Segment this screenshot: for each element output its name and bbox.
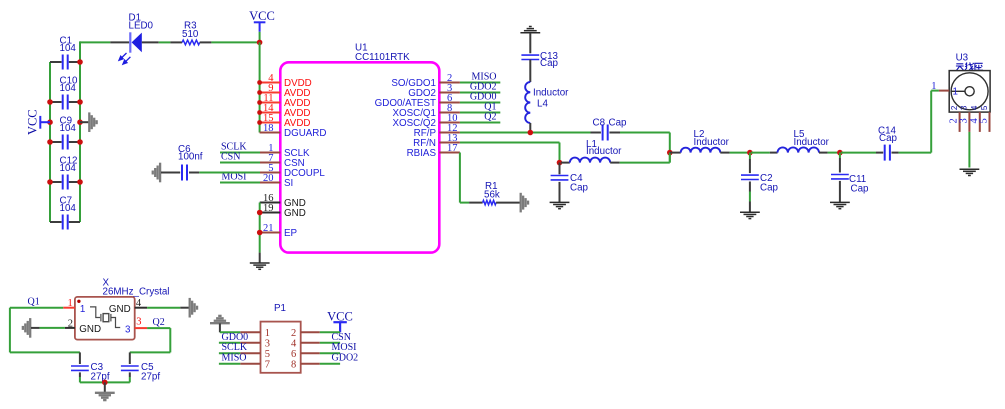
wire - C8 to junction A: [620, 132, 670, 134]
ground - earth below C11: [830, 201, 850, 203]
ground - arrow ground at crystal pin 4: [147, 307, 180, 309]
node - L4 / RF/P junction: [528, 130, 534, 136]
pin 3 of U3: [968, 112, 970, 132]
capacitor C1 value 104: [50, 61, 62, 63]
capacitor C6 100nf on DCOUPL: [159, 163, 161, 183]
svg-text:17: 17: [447, 143, 458, 154]
capacitor C2 Cap: [749, 153, 751, 159]
wire - right vertical bus of cap bank: [79, 41, 81, 222]
pin 16 GND of U1: [260, 202, 281, 204]
pin 17 RBIAS of U1: [439, 152, 460, 154]
pin 1 of P1: [240, 331, 260, 333]
wire - C14 to antenna U3: [899, 152, 932, 154]
svg-text:2: 2: [291, 328, 296, 339]
LED D1 (LED0): [110, 41, 129, 43]
pin 21 EP of U1: [260, 232, 281, 234]
svg-text:510: 510: [182, 29, 199, 40]
svg-text:104: 104: [60, 123, 77, 134]
svg-text:GDO0: GDO0: [222, 332, 249, 343]
ground - sideways arrow ground right of R1: [520, 193, 522, 213]
pin 5 DCOUPL of U1: [260, 172, 280, 174]
pin 20 SI of U1: [260, 182, 280, 184]
ground - earth below U1: [259, 253, 261, 263]
resistor R1 56k: [469, 202, 483, 204]
svg-text:GDO2: GDO2: [332, 353, 359, 364]
pin 18 DGUARD of U1: [260, 132, 281, 134]
svg-text:1: 1: [80, 304, 85, 315]
svg-text:MOSI: MOSI: [332, 342, 357, 353]
svg-text:1: 1: [931, 81, 936, 92]
ground - earth above C13: [520, 32, 540, 34]
svg-text:2: 2: [68, 318, 73, 329]
capacitor C11 Cap: [839, 153, 841, 158]
ground - thick ground below crystal caps: [104, 382, 106, 392]
svg-text:SI: SI: [284, 178, 293, 189]
U3 connector body: [949, 71, 990, 113]
svg-text:27pf: 27pf: [141, 372, 160, 383]
wire - VCC bus down the left side of U1: [259, 42, 261, 132]
node - crystal ground junction: [102, 380, 108, 386]
pin 8 XOSC/Q1 of U1: [439, 112, 460, 114]
svg-text:CC1101RTK: CC1101RTK: [355, 52, 410, 63]
svg-text:C8: C8: [593, 118, 606, 129]
capacitor C12 value 104: [50, 181, 62, 183]
svg-text:4: 4: [136, 298, 142, 309]
pin 3 GDO2 of U1: [439, 92, 460, 94]
pin 9 AVDD of U1: [260, 92, 281, 94]
svg-text:7: 7: [265, 360, 270, 371]
svg-text:Cap: Cap: [609, 118, 628, 129]
pin 5 of U3: [989, 112, 991, 132]
pin 1 of X: [63, 307, 75, 309]
net label MISO / wire to P1 pin 7: [219, 363, 240, 365]
svg-text:SCLK: SCLK: [222, 342, 248, 353]
svg-text:Q2: Q2: [153, 317, 165, 328]
pin 19 GND of U1: [260, 212, 281, 214]
wire - RF/N down to L1 row: [460, 142, 560, 144]
svg-text:CSN: CSN: [221, 152, 240, 163]
pin 4 DVDD of U1: [260, 82, 281, 84]
pin 2 SO/GDO1 of U1: [439, 82, 460, 84]
net label CSN / wire from P1 pin 4: [320, 342, 340, 344]
svg-text:P1: P1: [274, 303, 286, 314]
svg-text:3: 3: [959, 118, 970, 123]
svg-text:Q1: Q1: [28, 297, 40, 308]
pin 1 SCLK of U1: [260, 152, 280, 154]
capacitor C5 27pf: [129, 352, 131, 364]
net label SCLK / wire to P1 pin 5: [219, 352, 240, 354]
pin 13 RF/N of U1: [439, 142, 460, 144]
svg-text:104: 104: [60, 163, 77, 174]
svg-text:6: 6: [291, 349, 296, 360]
svg-text:Q2: Q2: [484, 112, 496, 123]
svg-text:104: 104: [60, 83, 77, 94]
net label MOSI / wire to pin 20 (SI): [220, 182, 260, 184]
ground - earth below C4: [550, 201, 570, 203]
svg-text:Inductor: Inductor: [586, 146, 622, 157]
LED D1 emission arrows: [119, 53, 130, 64]
wire - GND16/19/EP21 vertical bus: [259, 203, 261, 253]
wire - U3 pin3 to ground: [968, 132, 970, 168]
capacitor C8 Cap in RF/P path: [591, 132, 601, 134]
pin 4 of U3: [979, 112, 981, 132]
capacitor C3 27pf: [79, 352, 81, 364]
node - C11 junction: [837, 150, 843, 156]
svg-text:3: 3: [960, 105, 969, 110]
capacitor C13 Cap: [529, 33, 531, 53]
ground - sideways arrow ground right of C9 row: [80, 121, 89, 123]
wire - RBIAS down: [459, 153, 461, 203]
pin 3 of X: [135, 327, 147, 329]
svg-text:GND: GND: [284, 208, 306, 219]
net label GDO0 / wire from U1: [460, 102, 500, 104]
svg-text:100nf: 100nf: [178, 151, 203, 162]
svg-text:5: 5: [979, 118, 990, 123]
net label Q1 / wire from U1: [460, 112, 500, 114]
svg-text:3: 3: [265, 339, 270, 350]
inductor L5: [751, 152, 770, 154]
inductor L1: [561, 162, 570, 164]
wire - cap bank to LED anode: [80, 41, 110, 43]
resistor R3 value 510: [170, 41, 182, 43]
svg-text:3: 3: [136, 316, 141, 327]
net label MISO / wire from U1: [460, 82, 500, 84]
pin 2 of P1: [301, 331, 320, 333]
pin 14 AVDD of U1: [260, 112, 281, 114]
pin 6 GDO0/ATEST of U1: [439, 102, 460, 104]
crystal symbol inside X: [90, 307, 120, 328]
net label GDO2 / wire from U1: [460, 92, 500, 94]
wire - LED to R3: [159, 41, 171, 43]
svg-text:2: 2: [950, 105, 959, 110]
svg-text:Inductor: Inductor: [533, 88, 569, 99]
crystal X 26MHz_Crystal body: [75, 297, 135, 340]
wire - RF/P rail: [460, 132, 597, 134]
svg-text:104: 104: [60, 43, 77, 54]
svg-text:L4: L4: [537, 99, 548, 110]
svg-text:1: 1: [265, 328, 270, 339]
pin 15 AVDD of U1: [260, 122, 281, 124]
net label GDO0 / wire to P1 pin 3: [219, 342, 240, 344]
svg-text:104: 104: [60, 203, 77, 214]
wire - L5 to C11 node: [828, 152, 840, 154]
capacitor C7 value 104: [50, 221, 62, 223]
pin 12 RF/P of U1: [439, 132, 460, 134]
svg-text:Cap: Cap: [851, 184, 870, 195]
net label CSN / wire to pin 7: [220, 162, 260, 164]
pin 3 of P1: [240, 342, 260, 344]
svg-text:19: 19: [263, 203, 274, 214]
svg-text:Cap: Cap: [540, 58, 559, 69]
svg-text:26MHz_Crystal: 26MHz_Crystal: [103, 286, 170, 297]
svg-text:20: 20: [263, 173, 274, 184]
net label Q1 / wire crystal pin1: [10, 307, 63, 309]
inductor L2: [670, 152, 681, 154]
svg-text:LED0: LED0: [129, 20, 154, 31]
wire - crystal caps common bottom: [80, 381, 130, 383]
svg-text:MISO: MISO: [222, 353, 247, 364]
wire - L1 to junction A: [620, 162, 670, 164]
net label Q2 / wire from U1: [460, 122, 500, 124]
net label Q2 / wire crystal pin3: [147, 327, 170, 329]
svg-text:3: 3: [125, 324, 131, 335]
wire - Q1 loop down to C3: [9, 308, 11, 353]
svg-text:GND: GND: [79, 324, 101, 335]
svg-text:GND: GND: [109, 304, 131, 315]
svg-text:1: 1: [953, 87, 958, 98]
inductor L4: [529, 60, 531, 83]
capacitor C9 value 104: [50, 141, 62, 143]
node - VCC junction: [257, 40, 263, 46]
junction dots on right bus: [77, 59, 83, 65]
pin 7 of P1: [240, 363, 260, 365]
svg-text:U3: U3: [956, 52, 969, 63]
svg-text:RBIAS: RBIAS: [407, 148, 437, 159]
pin 2 of X (GND): [65, 327, 75, 329]
svg-text:DGUARD: DGUARD: [284, 128, 326, 139]
capacitor C4 Cap: [559, 163, 561, 175]
pin 8 of P1: [301, 363, 320, 365]
svg-text:CSN: CSN: [332, 332, 351, 343]
ground - earth below C2: [740, 211, 760, 213]
svg-text:18: 18: [263, 123, 274, 134]
svg-text:EP: EP: [284, 228, 298, 239]
pin 6 of P1: [301, 352, 320, 354]
wire - L2 to C2 node: [730, 152, 750, 154]
junction dots on left bus: [47, 99, 53, 105]
ground - arrow ground at crystal pin 2: [29, 318, 31, 338]
pin 4 of P1: [301, 342, 320, 344]
node - C2 junction: [747, 150, 753, 156]
svg-text:4: 4: [291, 339, 297, 350]
svg-text:Cap: Cap: [879, 133, 898, 144]
svg-text:8: 8: [291, 360, 296, 371]
capacitor C10 value 104: [50, 101, 62, 103]
svg-text:Cap: Cap: [760, 183, 779, 194]
pin 2 of U3: [959, 112, 961, 132]
wire - left vertical bus of cap bank: [49, 62, 51, 222]
ground - thick ground above P1 pin 1: [210, 322, 230, 324]
net label MOSI / wire from P1 pin 6: [320, 352, 340, 354]
svg-text:4: 4: [970, 105, 979, 110]
capacitor C14 Cap (series to antenna): [841, 152, 876, 154]
svg-text:56k: 56k: [484, 190, 500, 201]
net label SCLK / wire to pin 1: [220, 152, 260, 154]
pin 5 of P1: [240, 352, 260, 354]
svg-text:1: 1: [68, 298, 73, 309]
wire - R3 to VCC node: [211, 41, 259, 43]
svg-text:Inductor: Inductor: [694, 137, 730, 148]
ground - earth below U3: [960, 168, 980, 170]
svg-text:Cap: Cap: [570, 183, 589, 194]
pin 11 AVDD of U1: [260, 102, 281, 104]
label - Chinese text tian-xian-zuo (antenna socket): [956, 62, 983, 70]
node - C4/L1 junction: [557, 160, 563, 166]
svg-text:5: 5: [265, 349, 270, 360]
svg-text:VCC: VCC: [26, 109, 40, 135]
wire - Q2 loop down to C5: [169, 328, 171, 352]
svg-text:VCC: VCC: [249, 9, 275, 23]
pin 4 of X (GND): [135, 307, 147, 309]
node - junction A (RF combine): [667, 150, 673, 156]
net label GDO2 / wire from P1 pin 8: [320, 363, 340, 365]
pin 10 XOSC/Q2 of U1: [439, 122, 460, 124]
pin 7 CSN of U1: [260, 162, 280, 164]
svg-text:Inductor: Inductor: [794, 137, 830, 148]
svg-text:21: 21: [263, 223, 274, 234]
svg-text:5: 5: [980, 105, 989, 110]
